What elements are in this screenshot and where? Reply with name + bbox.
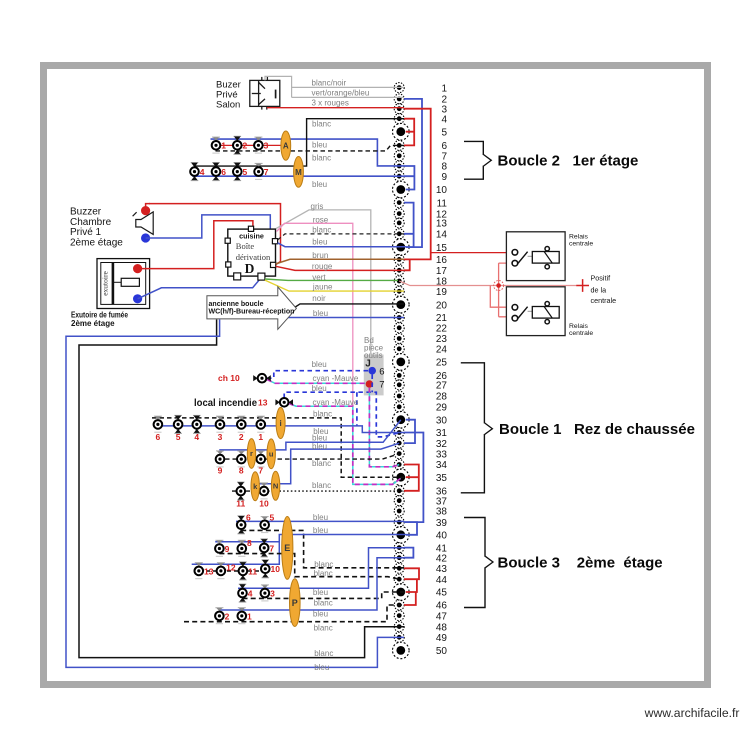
svg-text:29: 29 — [436, 403, 448, 414]
svg-text:4: 4 — [248, 589, 253, 599]
wire blue loop terminal 2 to terminal 15 — [404, 99, 422, 247]
wire dashed blanc row2 boucle1 to terminal 33 — [225, 454, 399, 459]
svg-text:2ème étage: 2ème étage — [70, 238, 123, 249]
svg-text:40: 40 — [436, 531, 448, 542]
node blue (buzzer chambre -) — [141, 233, 150, 242]
wire jaune box D to terminal 19 — [265, 280, 404, 291]
wire dashed blanc rowD boucle3 to terminal 45 — [243, 592, 407, 598]
buzzer B1 (salon) symbol — [250, 77, 280, 110]
detector 5 (boucle 3) — [260, 517, 269, 533]
junction node (positif) — [496, 283, 501, 288]
terminal 6 — [394, 140, 447, 152]
wire dashed bleu det13 to terminal 31 — [284, 392, 399, 437]
junction box D outline — [228, 229, 276, 276]
svg-text:de la: de la — [591, 286, 607, 295]
svg-text:1: 1 — [441, 83, 447, 94]
terminal 32 — [394, 438, 447, 450]
svg-text:7: 7 — [379, 379, 384, 390]
ancienne boucle text — [209, 299, 295, 316]
detector 5 (boucle 2) — [233, 163, 242, 181]
positif caption — [591, 273, 617, 305]
svg-text:13: 13 — [258, 398, 268, 408]
svg-text:11: 11 — [437, 198, 448, 209]
wire red branch to relay box 1 — [431, 252, 513, 254]
svg-text:centrale: centrale — [591, 296, 617, 305]
detector 2 (boucle 3) — [215, 608, 224, 624]
svg-text:42: 42 — [436, 553, 448, 564]
svg-text:blanc: blanc — [313, 409, 332, 418]
svg-text:Boucle 2 1er étage: Boucle 2 1er étage — [498, 153, 639, 170]
wire bleu arrow to terminal 21 — [281, 317, 404, 319]
svg-text:E: E — [284, 543, 290, 553]
svg-text:bleu: bleu — [312, 180, 327, 189]
box D corner pads — [225, 226, 278, 280]
buzzer Chambre label — [70, 206, 123, 248]
svg-text:28: 28 — [436, 392, 448, 403]
wire rose from box D down to local incendie net — [277, 223, 353, 406]
detector 3 (boucle 3) — [261, 585, 270, 601]
svg-text:2: 2 — [243, 141, 248, 151]
svg-text:bleu: bleu — [312, 140, 327, 149]
svg-text:31: 31 — [436, 428, 448, 439]
buzzer Privé Salon label — [216, 80, 241, 111]
wire cyan-mauve node7 to terminal 34 — [369, 388, 399, 467]
terminal 47 — [394, 611, 447, 623]
svg-text:bleu: bleu — [312, 238, 327, 247]
svg-text:34: 34 — [436, 460, 448, 471]
wire dashed blanc row3 between detectors — [232, 490, 262, 492]
wire red vertical relay1-relay2 contacts — [499, 263, 513, 317]
panel J — [364, 355, 384, 396]
svg-text:35: 35 — [436, 473, 448, 484]
terminal 16 — [394, 254, 447, 266]
terminal 25 — [393, 354, 448, 371]
svg-text:N: N — [273, 482, 278, 491]
wire blue row1 boucle1 to terminal 31 — [153, 426, 404, 433]
svg-text:blanc: blanc — [314, 569, 333, 578]
zone ellipse u — [267, 439, 275, 469]
relais centrale label — [569, 234, 593, 248]
zone ellipse P — [290, 579, 301, 627]
wire dashed blanc rowE boucle3 to terminal 46 — [184, 605, 404, 622]
wire brun box D to terminal 16 — [276, 259, 404, 264]
svg-text:46: 46 — [436, 601, 448, 612]
wire positif terminal 18 to + — [399, 281, 576, 286]
detector 4 (boucle 1) — [193, 415, 202, 433]
svg-text:exutoire: exutoire — [100, 271, 109, 296]
wire blue jumper terminals 11-14-15 — [404, 203, 414, 248]
detector 13 (boucle 3) — [195, 563, 204, 579]
svg-text:bleu: bleu — [314, 663, 329, 672]
buzzer B2 (chambre) speaker symbol — [133, 212, 154, 235]
detector 7 (boucle 2) — [254, 163, 263, 179]
svg-text:blanc/noir: blanc/noir — [312, 78, 347, 87]
relais centrale label — [569, 323, 593, 337]
svg-text:10: 10 — [271, 564, 281, 574]
terminal 40 — [393, 527, 448, 544]
detector 11 (boucle 3) — [239, 562, 248, 580]
svg-text:11: 11 — [236, 499, 245, 509]
svg-text:Chambre: Chambre — [70, 217, 112, 228]
detector 10 (boucle 1) — [260, 483, 269, 499]
svg-text:brun: brun — [312, 251, 328, 260]
svg-text:gris: gris — [311, 202, 324, 211]
svg-text:local incendie: local incendie — [194, 397, 257, 409]
terminal 23 — [394, 334, 447, 346]
svg-text:32: 32 — [436, 439, 448, 450]
terminal 44 — [394, 574, 447, 586]
wire dashed blanc rowB boucle3 to terminal 44 — [219, 554, 399, 580]
bracket Boucle 2 — [464, 141, 483, 179]
wire red buzzer chambre to boite D — [149, 204, 281, 265]
terminal 5 — [393, 123, 448, 140]
wire 3 x rouges to terminal 3 — [267, 107, 404, 109]
terminal 20 — [393, 296, 448, 313]
node 6 (blue) — [368, 367, 376, 375]
wire bleu box D to terminal 15 — [278, 243, 406, 247]
svg-text:bleu: bleu — [313, 309, 328, 318]
svg-text:Buzzer: Buzzer — [70, 206, 102, 217]
relay K2 (relais centrale) — [506, 287, 565, 336]
page border frame — [44, 66, 708, 685]
terminal 37 — [394, 496, 447, 508]
relay K1 (relais centrale) — [506, 232, 565, 281]
exutoire caption — [71, 311, 128, 329]
svg-text:bleu: bleu — [313, 526, 328, 535]
svg-text:3: 3 — [270, 589, 275, 599]
terminal 38 — [394, 506, 447, 518]
svg-text:50: 50 — [436, 646, 448, 657]
wire blue row3 boucle1 to terminal 32 — [252, 443, 399, 484]
svg-text:Relais: Relais — [569, 234, 588, 241]
svg-text:3: 3 — [264, 141, 269, 151]
svg-text:blanc: blanc — [312, 459, 331, 468]
detector 8 (boucle 3) — [238, 540, 247, 556]
svg-text:45: 45 — [436, 588, 448, 599]
terminal 42 — [394, 553, 447, 565]
svg-text:7: 7 — [264, 167, 269, 177]
svg-text:blanc: blanc — [312, 119, 331, 128]
svg-text:22: 22 — [436, 324, 448, 335]
wire blue loop arrow to terminal 49 (bottom ring) — [66, 320, 404, 668]
terminal 11 — [394, 198, 447, 210]
wire red jumper terminal 16 to 17 — [404, 259, 410, 270]
detector 11 (boucle 1) — [237, 482, 246, 500]
svg-text:11: 11 — [248, 566, 257, 576]
terminal 48 — [394, 622, 447, 634]
detector 8 (boucle 1) — [237, 451, 246, 467]
wire dashed blanc box D to terminal 14 — [278, 234, 404, 240]
wire dotted blanc row3 boucle1 to terminal 36 — [268, 490, 404, 492]
svg-text:blanc: blanc — [314, 624, 333, 633]
detector 12 (boucle 3) — [217, 563, 226, 579]
svg-text:4: 4 — [441, 114, 447, 125]
terminal 4 — [394, 114, 447, 126]
wire blue terminal 31 down to terminal 39 — [404, 433, 423, 523]
wire vert/orange/bleu to terminal 2 — [292, 96, 404, 98]
svg-text:48: 48 — [436, 622, 448, 633]
svg-text:D: D — [245, 261, 255, 276]
svg-text:39: 39 — [436, 518, 448, 529]
ancienne boucle arrow shape — [207, 287, 297, 329]
terminal strip: 50 numbered bus terminals — [393, 83, 448, 659]
wire red jumper terminals 4-5-6 — [404, 119, 414, 146]
svg-text:33: 33 — [436, 449, 448, 460]
svg-text:i: i — [279, 419, 281, 428]
svg-text:Boîte: Boîte — [236, 241, 255, 251]
svg-text:u: u — [269, 450, 274, 459]
terminal 49 — [394, 632, 447, 644]
svg-text:cuisine: cuisine — [239, 231, 264, 240]
wire blue jumper terminals 8-9-10 — [404, 166, 414, 190]
node red (buzzer chambre +) — [141, 206, 150, 215]
svg-text:cyan -Mauve: cyan -Mauve — [313, 398, 359, 407]
svg-text:vert: vert — [312, 273, 326, 282]
svg-text:12: 12 — [226, 562, 236, 572]
wire red exutoire to boite D — [138, 221, 253, 269]
terminal 26 — [394, 370, 447, 382]
svg-text:49: 49 — [436, 633, 448, 644]
wire dashed blanc rowA boucle3 to terminal 43 — [241, 530, 404, 567]
zone ellipse k — [251, 472, 259, 501]
terminal 22 — [394, 323, 447, 335]
wire red junction branch to relay2 — [490, 286, 512, 308]
svg-text:blanc: blanc — [314, 599, 333, 608]
wire blue jumper terminals 39-40 — [404, 522, 417, 535]
svg-text:10: 10 — [436, 185, 448, 196]
terminal 21 — [394, 313, 447, 325]
terminal 17 — [394, 265, 447, 277]
terminal 31 — [394, 428, 447, 440]
svg-text:1: 1 — [247, 611, 252, 621]
svg-text:bleu: bleu — [312, 433, 327, 442]
svg-text:1: 1 — [221, 141, 226, 151]
svg-text:bleu: bleu — [312, 360, 327, 369]
svg-text:bleu: bleu — [312, 384, 327, 393]
svg-text:47: 47 — [436, 611, 448, 622]
detector 4 (boucle 3) — [238, 584, 247, 602]
terminal 18 — [394, 276, 447, 288]
svg-text:rouge: rouge — [312, 262, 333, 271]
svg-text:Boucle 1 Rez de chaussée: Boucle 1 Rez de chaussée — [499, 421, 695, 438]
svg-text:bleu: bleu — [312, 442, 327, 451]
wire blue jumper terminals 30-32 — [404, 420, 415, 443]
svg-text:6: 6 — [221, 167, 226, 177]
svg-text:7: 7 — [258, 466, 263, 476]
svg-text:6: 6 — [441, 141, 447, 152]
svg-text:blanc: blanc — [314, 649, 333, 658]
terminal 39 — [394, 517, 447, 529]
wire blue buzzer chambre to boite D — [146, 215, 271, 239]
svg-text:5: 5 — [441, 127, 447, 138]
positif + symbol — [576, 279, 589, 292]
svg-text:blanc: blanc — [312, 226, 331, 235]
svg-text:24: 24 — [436, 345, 448, 356]
svg-text:6: 6 — [156, 432, 161, 442]
node 7 (red) — [366, 380, 374, 388]
svg-text:2ème étage: 2ème étage — [71, 319, 115, 328]
svg-text:blanc: blanc — [312, 154, 331, 163]
zone ellipse E — [282, 517, 293, 580]
detector ch10 — [253, 374, 271, 383]
svg-text:jaune: jaune — [312, 282, 333, 291]
svg-text:8: 8 — [239, 466, 244, 476]
zone ellipse r — [247, 439, 255, 469]
terminal 35 — [393, 469, 448, 486]
terminal 7 — [394, 151, 447, 163]
svg-text:1: 1 — [258, 432, 263, 442]
terminal 27 — [394, 380, 447, 392]
svg-text:www.archifacile.fr: www.archifacile.fr — [644, 706, 740, 720]
svg-text:30: 30 — [436, 415, 448, 426]
terminal 3 — [394, 104, 447, 116]
detector 3 (boucle 1) — [216, 416, 225, 432]
svg-text:Positif: Positif — [591, 273, 611, 282]
svg-text:3 x rouges: 3 x rouges — [312, 99, 349, 108]
svg-text:6: 6 — [379, 367, 384, 378]
detector 13 (local incendie) — [275, 398, 293, 407]
svg-text:5: 5 — [176, 432, 181, 442]
svg-text:2: 2 — [239, 432, 244, 442]
svg-text:9: 9 — [441, 172, 447, 183]
svg-text:blanc: blanc — [314, 560, 333, 569]
wire blue rowE boucle3 to terminal 42 — [219, 558, 404, 610]
wire blue rowA boucle3 to terminal 39 — [236, 520, 404, 522]
svg-text:centrale: centrale — [569, 330, 593, 337]
terminal 19 — [394, 286, 447, 298]
detector 9 (boucle 1) — [216, 451, 225, 467]
terminal 2 — [394, 94, 447, 106]
svg-text:WC(h/f)-Bureau-réception: WC(h/f)-Bureau-réception — [209, 307, 295, 316]
detector 6 (boucle 2) — [212, 163, 221, 181]
wire red jumpers terminals 43-44-45-46 — [404, 568, 419, 605]
wire rouge box D to terminal 17 — [276, 266, 404, 270]
terminal 15 — [393, 239, 448, 256]
svg-text:10: 10 — [259, 499, 269, 509]
svg-text:9: 9 — [225, 544, 230, 554]
svg-text:3: 3 — [218, 432, 223, 442]
svg-text:2: 2 — [225, 611, 230, 621]
detector 9 (boucle 3) — [215, 540, 224, 556]
svg-text:5: 5 — [243, 167, 248, 177]
wire dashed bleu node6 branch — [357, 375, 372, 426]
svg-text:M: M — [295, 168, 302, 177]
detector 5 (boucle 1) — [174, 415, 183, 433]
wire black loop arrow to terminal 48 (bottom ring) — [79, 320, 404, 658]
wire blue row2 to terminal 9 — [193, 175, 405, 177]
svg-text:43: 43 — [436, 564, 448, 575]
detector 2 (boucle 2) — [233, 136, 242, 154]
svg-text:27: 27 — [436, 381, 448, 392]
svg-text:19: 19 — [436, 287, 448, 298]
detector 1 (boucle 1) — [257, 416, 266, 432]
terminal 43 — [394, 563, 447, 575]
wire blue row2 boucle1 to terminal 30 — [220, 420, 401, 454]
svg-text:6: 6 — [246, 513, 251, 523]
wire dashed bleu ch10 to node 6 — [267, 371, 368, 379]
svg-text:13: 13 — [436, 219, 448, 230]
wire blanc/noir to terminal 1 — [265, 76, 404, 97]
terminal 33 — [394, 449, 447, 461]
detector 1 (boucle 3) — [238, 608, 247, 624]
svg-text:9: 9 — [218, 466, 223, 476]
svg-text:38: 38 — [436, 507, 448, 518]
terminal 45 — [393, 584, 448, 601]
terminal 36 — [394, 486, 447, 498]
zone ellipse N — [271, 471, 279, 500]
detector 10 (boucle 3) — [261, 560, 270, 578]
svg-text:16: 16 — [436, 255, 448, 266]
detector 3 (boucle 2) — [254, 137, 263, 153]
svg-text:ch 10: ch 10 — [218, 373, 240, 383]
terminal 28 — [394, 391, 447, 403]
detector 4 (boucle 2) — [190, 163, 199, 181]
node red (exutoire) — [133, 264, 142, 273]
terminal 1 — [394, 83, 447, 95]
zone ellipse i — [276, 407, 285, 438]
detector 6 (boucle 3) — [237, 516, 246, 534]
svg-text:blanc: blanc — [312, 481, 331, 490]
zone ellipse A — [281, 131, 291, 160]
svg-text:noir: noir — [312, 294, 326, 303]
terminal 12 — [394, 209, 447, 221]
exutoire de fumee box — [97, 259, 150, 309]
wire dashed blanc row1 to terminal 6 — [216, 145, 405, 151]
svg-text:4: 4 — [200, 167, 205, 177]
svg-text:vert/orange/bleu: vert/orange/bleu — [312, 88, 370, 97]
detector 7 (boucle 1) — [257, 451, 266, 467]
svg-text:44: 44 — [436, 575, 448, 586]
wire gris from box D down to panel J — [276, 210, 371, 355]
svg-text:centrale: centrale — [569, 241, 593, 248]
wire cyan-mauve det13 to terminal 35 — [289, 404, 401, 485]
wire blue row1 to terminal 8 — [211, 139, 405, 166]
zone ellipse M — [294, 157, 304, 188]
terminal 10 — [393, 181, 448, 198]
svg-text:5: 5 — [270, 513, 275, 523]
terminal 50 — [393, 642, 448, 659]
svg-text:Salon: Salon — [216, 100, 240, 111]
wire dashed blanc rowC between detectors — [199, 570, 265, 572]
svg-text:17: 17 — [436, 266, 448, 277]
svg-text:13: 13 — [204, 566, 214, 576]
svg-text:cyan -Mauve: cyan -Mauve — [313, 374, 359, 383]
terminal 41 — [394, 543, 447, 555]
svg-text:bleu: bleu — [313, 609, 328, 618]
svg-text:A: A — [283, 142, 289, 151]
terminal 46 — [394, 600, 447, 612]
svg-text:25: 25 — [436, 358, 448, 369]
terminal 13 — [394, 218, 447, 230]
terminal 8 — [394, 161, 447, 173]
svg-text:20: 20 — [436, 300, 448, 311]
wire vert box D to terminal 18 — [265, 279, 398, 280]
detector 2 (boucle 1) — [237, 416, 246, 432]
wire blue jumper terminals 41-42 — [404, 548, 413, 558]
svg-text:8: 8 — [247, 538, 252, 548]
wire blue rowB/rowC boucle3 to terminal 40 — [192, 535, 406, 565]
svg-text:7: 7 — [269, 543, 274, 553]
bracket Boucle 3 — [464, 518, 485, 608]
detector 1 (boucle 2) — [212, 137, 221, 153]
svg-text:Boucle 3 2ème étage: Boucle 3 2ème étage — [498, 554, 663, 571]
svg-text:bleu: bleu — [313, 588, 328, 597]
wire blue rowD boucle3 to terminal 41 — [238, 548, 404, 589]
svg-text:P: P — [292, 598, 298, 608]
wire red loop terminal 3 down to terminals 16/17 and relay — [404, 109, 431, 260]
svg-text:14: 14 — [436, 230, 448, 241]
svg-text:rose: rose — [313, 215, 329, 224]
